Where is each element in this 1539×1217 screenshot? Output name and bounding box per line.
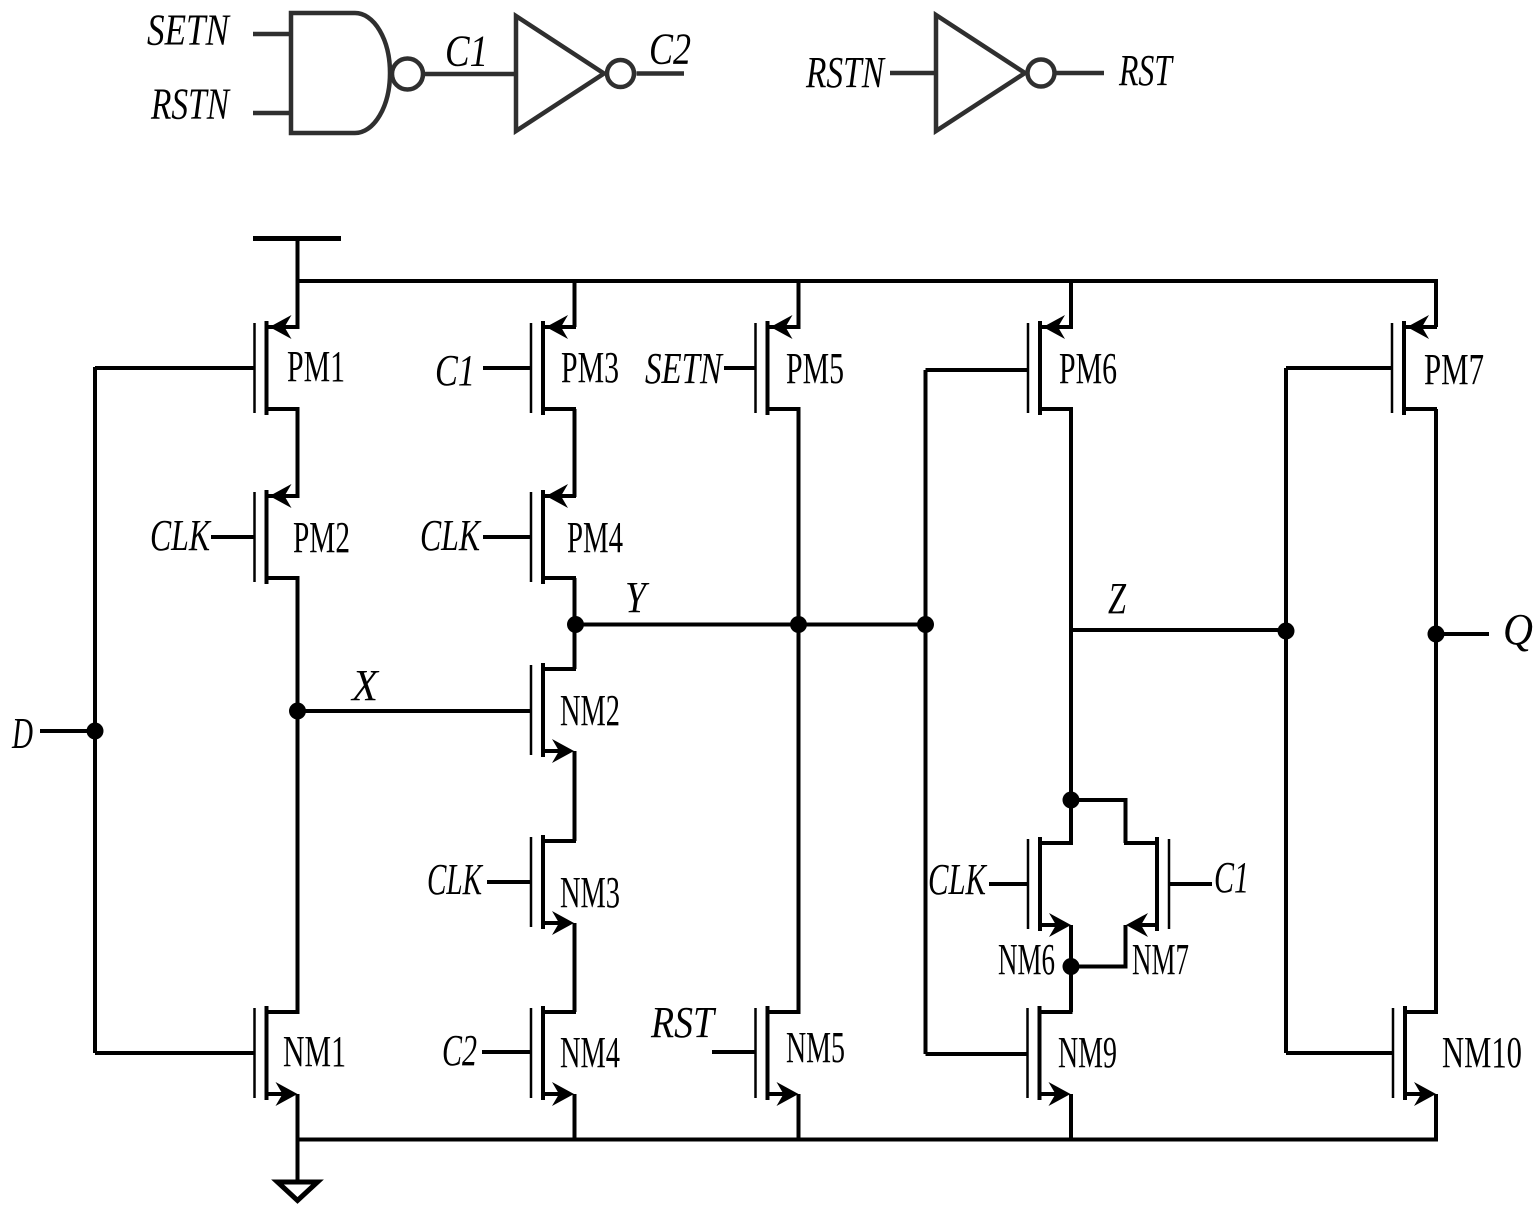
node Q junction xyxy=(1428,626,1445,643)
node D junction xyxy=(87,723,104,740)
wire PM1 gate xyxy=(95,366,255,370)
svg-text:PM2: PM2 xyxy=(293,513,350,562)
wire NM6 source to NM9 drain xyxy=(1069,925,1073,1012)
ground xyxy=(278,1140,318,1201)
wire junction to NM7 drain xyxy=(1071,800,1126,843)
svg-text:C2: C2 xyxy=(649,25,691,74)
svg-text:RST: RST xyxy=(1118,46,1174,95)
svg-text:PM6: PM6 xyxy=(1059,344,1117,393)
svg-text:Q: Q xyxy=(1503,605,1533,654)
wire NM9 source to rail xyxy=(1069,1094,1073,1140)
svg-text:PM7: PM7 xyxy=(1424,345,1484,394)
svg-text:SETN: SETN xyxy=(645,344,724,393)
wire NM1 gate xyxy=(95,1051,255,1055)
transistor PM4 xyxy=(531,484,623,584)
wire CLK to NM3 gate xyxy=(487,880,531,884)
wire PM6 drain down to NM6 drain xyxy=(1069,409,1073,843)
wire VDD top rail xyxy=(298,281,1437,327)
wire PM3 source to rail xyxy=(573,281,577,327)
node NM6/NM7 drain junction xyxy=(1063,792,1080,809)
wire CLK to PM2 gate xyxy=(211,535,255,539)
svg-text:D: D xyxy=(11,709,33,758)
svg-text:NM10: NM10 xyxy=(1442,1028,1522,1077)
node Z junction xyxy=(1278,623,1295,640)
svg-text:PM1: PM1 xyxy=(287,342,345,391)
node Y at PM5 drain xyxy=(790,616,807,633)
svg-text:CLK: CLK xyxy=(150,511,212,560)
wire CLK to PM4 gate xyxy=(483,535,531,539)
svg-text:SETN: SETN xyxy=(147,6,231,55)
svg-text:C1: C1 xyxy=(1214,853,1249,902)
transistor PM2 xyxy=(255,484,351,584)
wire C2 to NM4 gate xyxy=(482,1050,531,1054)
svg-text:NM1: NM1 xyxy=(283,1027,346,1076)
wire PM3 drain to PM4 source xyxy=(573,409,577,497)
wire NM1 source to rail xyxy=(296,1094,300,1140)
wire NM5 source to rail xyxy=(797,1094,801,1140)
svg-text:RSTN: RSTN xyxy=(150,80,231,129)
svg-text:NM3: NM3 xyxy=(560,868,620,917)
transistor PM3 xyxy=(531,315,619,415)
wire Y to PM6/NM9 gates vertical xyxy=(924,370,928,1054)
wire Z to PM7/NM10 gates vertical xyxy=(1284,368,1288,1053)
svg-text:NM6: NM6 xyxy=(998,935,1055,984)
wire to NM9 gate xyxy=(926,1052,1028,1056)
wire PM4 drain to NM2 drain (through Y) xyxy=(573,578,577,669)
wire Q output xyxy=(1436,632,1489,636)
wire PM1 source to rail xyxy=(296,281,300,327)
wire to NM10 gate xyxy=(1286,1051,1393,1055)
transistor NM1 xyxy=(255,1006,347,1106)
svg-text:CLK: CLK xyxy=(928,855,988,904)
node Y at PM4 drain xyxy=(567,616,584,633)
svg-text:NM2: NM2 xyxy=(560,686,620,735)
transistor NM10 xyxy=(1393,1006,1522,1106)
transistor NM5 xyxy=(756,1006,846,1106)
wire C1 (NAND out to inverter) xyxy=(425,72,516,77)
inverter U2 xyxy=(516,16,634,131)
svg-text:C2: C2 xyxy=(442,1026,477,1075)
node X xyxy=(289,703,306,720)
svg-text:CLK: CLK xyxy=(427,855,484,904)
svg-text:PM5: PM5 xyxy=(786,344,844,393)
svg-text:C1: C1 xyxy=(435,346,475,395)
wire Y horizontal xyxy=(575,623,926,627)
wire ground rail xyxy=(298,1094,1437,1140)
wire NM7 source to junction xyxy=(1071,925,1126,967)
wire to PM6 gate xyxy=(926,368,1029,372)
wire PM1 drain to PM2 source xyxy=(296,409,300,497)
wire PM5 drain to Y xyxy=(797,409,801,625)
wire C2 output xyxy=(637,71,685,76)
transistor NM3 xyxy=(531,835,620,935)
wire X to NM2 gate xyxy=(298,709,532,713)
wire Y to NM5 drain xyxy=(797,625,801,1013)
node Y at PM6 gate riser xyxy=(917,616,934,633)
wire NM3 source to NM4 drain xyxy=(573,923,577,1012)
svg-text:C1: C1 xyxy=(445,27,488,76)
wire C1 to PM3 gate xyxy=(483,366,531,370)
wire SETN to PM5 gate xyxy=(724,366,756,370)
svg-text:NM4: NM4 xyxy=(560,1028,620,1077)
transistor NM2 xyxy=(531,663,620,763)
svg-text:NM7: NM7 xyxy=(1132,935,1189,984)
wire SETN to NAND xyxy=(253,32,293,37)
node NM6/NM7 source junction xyxy=(1063,958,1080,975)
VDD supply bar xyxy=(253,236,341,241)
transistor PM7 xyxy=(1392,315,1484,415)
svg-text:RST: RST xyxy=(650,998,717,1047)
svg-text:RSTN: RSTN xyxy=(805,48,886,97)
wire PM7 drain to NM10 drain (through Q) xyxy=(1434,409,1438,1012)
wire RST output xyxy=(1057,71,1105,76)
wire RST to NM5 gate xyxy=(712,1050,756,1054)
inverter U3 xyxy=(936,15,1055,131)
wire PM5 source to rail xyxy=(797,281,801,327)
wire RSTN to NAND xyxy=(253,111,293,116)
svg-text:X: X xyxy=(350,661,380,710)
transistor NM4 xyxy=(531,1006,620,1106)
wire RSTN to inverter xyxy=(890,71,936,76)
wire NM4 source to rail xyxy=(573,1094,577,1140)
wire PM6 source to rail xyxy=(1069,281,1073,327)
transistor NM9 xyxy=(1028,1006,1118,1106)
svg-text:PM4: PM4 xyxy=(567,513,623,562)
wire to PM7 gate xyxy=(1286,366,1392,370)
transistor PM6 xyxy=(1028,315,1117,415)
svg-text:CLK: CLK xyxy=(420,511,482,560)
wire PM2 drain to NM1 drain (through X) xyxy=(296,578,300,1012)
NAND gate xyxy=(291,13,423,133)
transistor NM6 xyxy=(998,837,1073,984)
transistor PM1 xyxy=(255,315,346,415)
svg-text:NM5: NM5 xyxy=(786,1023,845,1072)
transistor PM5 xyxy=(756,315,845,415)
wire C1 to NM7 gate xyxy=(1169,882,1212,886)
svg-text:Z: Z xyxy=(1108,574,1126,623)
wire D vertical bus xyxy=(93,367,97,1053)
wire CLK to NM6 gate xyxy=(989,882,1028,886)
wire D input xyxy=(40,729,95,733)
svg-text:NM9: NM9 xyxy=(1058,1028,1117,1077)
svg-text:PM3: PM3 xyxy=(561,343,619,392)
wire VDD stem xyxy=(296,239,300,284)
wire Z horizontal xyxy=(1071,628,1286,632)
transistor NM7 xyxy=(1124,837,1189,984)
wire NM2 source to NM3 drain xyxy=(573,751,577,841)
